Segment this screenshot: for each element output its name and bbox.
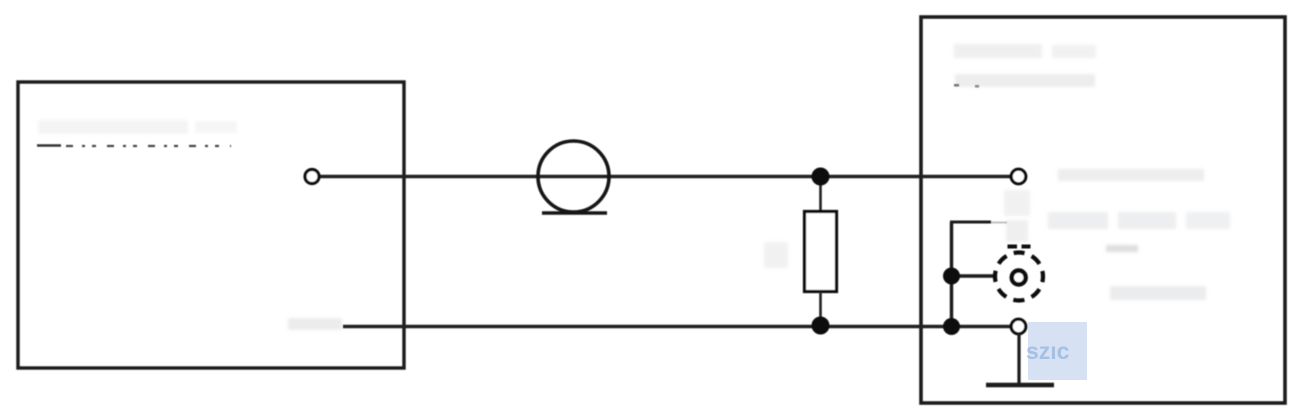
svg-text:szıc: szıc [1026,338,1070,364]
